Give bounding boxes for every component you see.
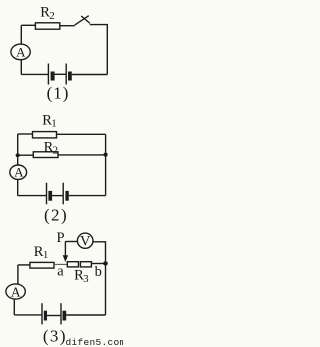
svg-text:difen5.com: difen5.com	[66, 337, 124, 347]
resistor R2 circuit2	[33, 152, 58, 158]
wire C2 left rail upper	[17, 134, 19, 154]
battery B3 cell1 long plate	[41, 303, 43, 324]
wire C1 left rail lower	[20, 60, 22, 75]
wire C2 right rail	[105, 134, 107, 195]
battery B3 cell1 short plate	[44, 311, 47, 321]
node junction dot b	[103, 261, 108, 266]
label R2 circuit2	[44, 139, 59, 156]
switch S1 contact tick	[81, 16, 90, 23]
svg-text:P: P	[57, 230, 65, 246]
ammeter A3	[6, 284, 25, 299]
battery B3 cell2 long plate	[60, 303, 62, 324]
ammeter A1	[11, 44, 30, 60]
wire C2 dot to ammeter	[17, 157, 19, 165]
rheostat R3 box left half	[67, 262, 78, 267]
battery B1 cell1 short plate	[51, 72, 55, 81]
battery B2 cell1 long plate	[46, 183, 48, 205]
wire voltmeter to right rail	[93, 242, 106, 261]
wire C2 bottom left	[18, 195, 47, 197]
node junction dot left C2	[16, 153, 20, 157]
battery B2 cell2 long plate	[62, 183, 64, 205]
wire C3 node a segment (faint)	[54, 263, 67, 265]
svg-text:(1): (1)	[47, 84, 70, 103]
svg-text:2: 2	[53, 145, 59, 157]
wire slider to voltmeter	[65, 241, 77, 243]
wire C2 branch to R2	[18, 154, 34, 156]
ammeter A2	[10, 165, 27, 179]
switch S1 lever	[75, 16, 89, 26]
node junction dot right C2	[104, 153, 108, 157]
battery B2 cell1 short plate	[48, 191, 52, 201]
label R1 circuit3	[34, 244, 49, 261]
svg-text:A: A	[14, 165, 24, 180]
wire C1 bottom left	[21, 73, 48, 75]
wire R3 to node b	[91, 263, 103, 265]
wire C3 left rail upper	[17, 265, 19, 285]
wire C3 right rail	[105, 263, 107, 315]
wire C3 below ammeter	[13, 299, 15, 315]
battery B1 cell1 long plate	[47, 64, 49, 85]
resistor R2	[35, 23, 59, 29]
voltmeter V	[77, 233, 93, 248]
slider P arrowhead	[63, 255, 68, 262]
label R2 circuit1	[40, 4, 55, 22]
slider P stem	[64, 241, 66, 255]
wire C1 top-left segment	[21, 24, 35, 26]
resistor R1 circuit3	[30, 262, 54, 268]
battery B3 cell2 short plate	[63, 311, 67, 321]
svg-text:(2): (2)	[44, 205, 68, 224]
battery B1 cell2 long plate	[65, 64, 67, 85]
wire C2 bottom right	[69, 195, 106, 197]
wire B2 inter-cell stub	[52, 195, 63, 197]
wire C2 branch R2 to right dot	[58, 154, 104, 156]
wire C3 bottom left	[14, 314, 42, 316]
svg-text:a: a	[57, 264, 64, 280]
wire C3 top-left segment	[18, 264, 30, 266]
wire C2 box to right corner	[57, 133, 106, 135]
wire C1 switch to right rail	[90, 25, 108, 75]
svg-text:1: 1	[43, 249, 49, 261]
wire C1 box to switch	[60, 25, 75, 27]
wire C2 top-left segment	[18, 133, 33, 135]
svg-text:(3): (3)	[43, 327, 67, 346]
svg-text:3: 3	[83, 273, 89, 285]
svg-text:A: A	[16, 45, 26, 60]
wire C1 bottom right	[72, 74, 108, 76]
wire C2 below ammeter	[17, 179, 19, 195]
wire B3 inter-cell stub	[47, 315, 61, 317]
resistor R1 circuit2	[33, 132, 57, 138]
svg-text:b: b	[95, 264, 102, 280]
battery B2 cell2 short plate	[65, 191, 68, 201]
svg-text:V: V	[80, 234, 91, 250]
label R3 circuit3	[74, 268, 89, 285]
battery B1 cell2 short plate	[68, 72, 72, 81]
rheostat R3 box right half	[80, 262, 91, 267]
wire C3 bottom right	[66, 314, 105, 316]
svg-text:A: A	[11, 284, 21, 299]
wire C1 left rail upper	[20, 25, 22, 44]
label R1 circuit2	[42, 112, 57, 129]
svg-text:2: 2	[49, 10, 55, 22]
svg-text:1: 1	[51, 118, 57, 130]
wire B1 inter-cell stub	[55, 73, 67, 75]
